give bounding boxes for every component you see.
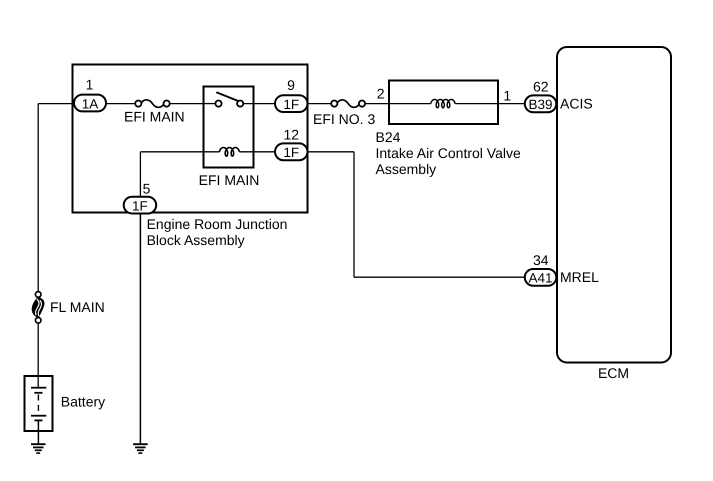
battery plate long bottom	[31, 415, 46, 417]
ground battery	[31, 444, 46, 453]
svg-text:12: 12	[284, 126, 300, 142]
junction block label	[147, 216, 288, 248]
svg-text:Assembly: Assembly	[376, 161, 437, 177]
svg-text:Intake Air Control Valve: Intake Air Control Valve	[376, 145, 521, 161]
connector 1F pin 5	[124, 197, 157, 214]
wire	[38, 103, 75, 105]
battery plate short bottom	[34, 419, 42, 421]
connector A41 pin 34 label	[533, 252, 549, 268]
connector 1F pin 5 label	[143, 181, 151, 197]
svg-text:Block Assembly: Block Assembly	[147, 232, 245, 248]
relay contact left	[215, 101, 221, 107]
node MREL	[560, 269, 599, 285]
wire	[170, 103, 204, 105]
svg-text:1A: 1A	[82, 96, 99, 111]
svg-text:MREL: MREL	[560, 269, 599, 285]
wire	[243, 103, 275, 105]
fuse EFI NO. 3	[313, 100, 375, 127]
relay EFI MAIN box	[199, 87, 260, 189]
connector B39 pin 62 label	[533, 79, 549, 95]
svg-text:Battery: Battery	[61, 393, 105, 409]
wire	[308, 103, 332, 105]
node ACIS	[560, 96, 593, 112]
relay coil	[219, 148, 239, 157]
connector 1A	[74, 95, 106, 112]
B24 label	[376, 129, 521, 177]
junction block J1 box	[73, 65, 308, 213]
relay contact right	[237, 101, 243, 107]
svg-text:ECM: ECM	[598, 365, 629, 381]
connector 1F pin 9 label	[287, 77, 295, 93]
wire	[365, 103, 389, 105]
wire	[308, 151, 355, 153]
svg-text:Engine Room Junction: Engine Room Junction	[147, 216, 288, 232]
B24 pin 2 label	[377, 86, 385, 102]
intake air control valve B24 box	[389, 81, 498, 125]
battery dashed link	[37, 395, 39, 415]
svg-text:1F: 1F	[283, 97, 299, 112]
svg-text:5: 5	[143, 181, 151, 197]
relay switch blade	[216, 92, 238, 101]
svg-text:34: 34	[533, 252, 549, 268]
wire	[389, 103, 431, 105]
connector 1F pin 12	[275, 143, 308, 160]
svg-text:1F: 1F	[283, 145, 299, 160]
wire	[455, 103, 498, 105]
connector 1F pin 9	[275, 95, 308, 112]
wire	[140, 151, 219, 153]
svg-text:A41: A41	[528, 271, 552, 286]
svg-text:B24: B24	[376, 129, 401, 145]
svg-text:1: 1	[503, 88, 511, 104]
svg-text:EFI MAIN: EFI MAIN	[124, 109, 185, 125]
wire	[354, 276, 526, 278]
wire	[498, 103, 526, 105]
fuse EFI MAIN	[124, 100, 185, 125]
wire	[239, 151, 275, 153]
svg-text:EFI MAIN: EFI MAIN	[199, 172, 260, 188]
battery plate short top	[34, 392, 42, 394]
connector 1A pin 1 label	[86, 77, 94, 93]
wire	[37, 421, 39, 444]
wire	[353, 152, 355, 277]
B24 pin 1 label	[503, 88, 511, 104]
svg-text:2: 2	[377, 86, 385, 102]
wire	[106, 103, 135, 105]
wire	[139, 152, 141, 197]
connector 1F pin 12 label	[284, 126, 300, 142]
battery plate long top	[31, 387, 46, 389]
svg-text:62: 62	[533, 79, 549, 95]
wire	[37, 324, 39, 388]
ECM box	[557, 47, 671, 381]
battery box	[25, 376, 106, 431]
svg-text:1F: 1F	[132, 198, 148, 213]
connector A41	[525, 269, 557, 286]
svg-text:FL MAIN: FL MAIN	[50, 299, 105, 315]
ground junction block	[133, 444, 148, 453]
svg-text:9: 9	[287, 77, 295, 93]
coil L1 intake valve	[431, 100, 455, 108]
svg-text:ACIS: ACIS	[560, 96, 593, 112]
svg-text:B39: B39	[528, 97, 552, 112]
wire	[37, 104, 39, 292]
wire	[139, 213, 141, 444]
connector B39	[525, 95, 557, 112]
svg-text:EFI NO. 3: EFI NO. 3	[313, 111, 375, 127]
wire	[204, 103, 216, 105]
fusible link FL MAIN	[32, 292, 105, 324]
svg-text:1: 1	[86, 77, 94, 93]
